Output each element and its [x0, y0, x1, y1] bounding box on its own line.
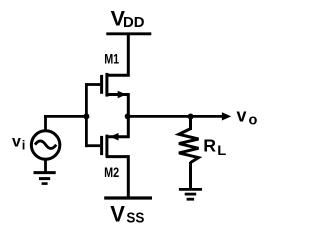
M1 gate lead	[85, 83, 100, 86]
svg-text:R: R	[203, 136, 216, 156]
svg-text:M2: M2	[104, 164, 119, 180]
svg-text:i: i	[22, 138, 26, 153]
wire RL top lead	[189, 116, 192, 130]
resistor RL	[179, 129, 199, 163]
M1 source arrow	[118, 91, 127, 99]
wire output node row	[127, 115, 223, 118]
M1 gate bar	[100, 75, 103, 94]
svg-text:V: V	[110, 201, 125, 226]
wire source vi to input node	[44, 115, 47, 131]
M1 source lead	[106, 95, 129, 118]
M1 channel bar	[105, 73, 108, 97]
wire VDD rail to M1 drain	[106, 33, 129, 75]
svg-text:v: v	[12, 134, 21, 151]
node source junction	[125, 113, 131, 119]
wire source vi to ground	[44, 160, 47, 173]
M2 gate lead	[85, 144, 100, 147]
M2 gate bar	[100, 136, 103, 155]
source vi (AC)	[31, 131, 60, 160]
M2 drain lead	[106, 157, 129, 198]
wire input node to gates	[44, 115, 88, 118]
wire gate column	[85, 83, 88, 147]
M2 source arrow	[110, 133, 119, 141]
label vo	[237, 105, 258, 128]
node output RL junction	[188, 114, 194, 120]
M2 source lead	[106, 116, 129, 137]
label VSS	[110, 201, 144, 226]
svg-text:v: v	[237, 105, 247, 125]
ground (load)	[179, 189, 202, 199]
svg-text:o: o	[249, 112, 258, 128]
transistor M1	[85, 73, 128, 117]
label VDD	[111, 6, 145, 31]
svg-text:L: L	[217, 142, 226, 158]
power rail VSS	[104, 196, 152, 199]
power rail VDD	[106, 32, 151, 35]
ground (input source)	[34, 173, 56, 184]
output arrowhead	[222, 112, 231, 120]
transistor M2	[85, 116, 128, 198]
M2 channel bar	[105, 135, 108, 158]
node gate junction	[83, 113, 89, 119]
label RL	[203, 136, 227, 158]
svg-text:M1: M1	[104, 51, 119, 67]
label vi	[12, 134, 25, 153]
svg-text:SS: SS	[126, 209, 144, 226]
svg-text:DD: DD	[123, 14, 145, 31]
wire RL bottom lead	[189, 162, 192, 189]
